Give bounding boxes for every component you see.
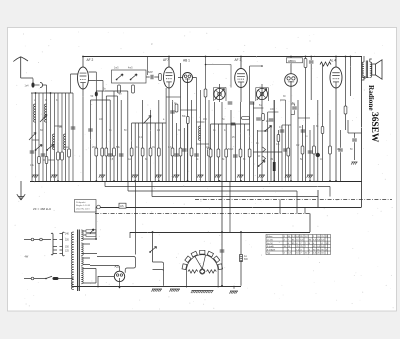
valve data table [266, 235, 331, 255]
node junction [335, 180, 337, 182]
svg-text:ZF = 468 kHz: ZF = 468 kHz [33, 207, 52, 211]
connector pin [40, 238, 43, 241]
wire [348, 132, 362, 134]
capacitor [308, 151, 313, 153]
node junction [310, 56, 312, 58]
terminal circle [97, 205, 101, 209]
node junction [113, 180, 115, 182]
wire [297, 100, 299, 181]
wire [221, 102, 223, 181]
wire tap [83, 244, 97, 254]
node junction [219, 180, 221, 182]
ground [151, 289, 162, 292]
wire [234, 124, 236, 181]
wire [147, 56, 149, 75]
wire [196, 78, 198, 182]
wire [168, 88, 170, 181]
wire tap [83, 258, 90, 265]
resistor [57, 152, 60, 160]
svg-text:36SEW: 36SEW [369, 112, 379, 143]
node junction [152, 231, 154, 233]
wire [135, 195, 137, 255]
capacitor antenna series [31, 82, 34, 87]
resistor padder [132, 85, 135, 93]
wire [268, 111, 279, 113]
wire [82, 56, 84, 67]
ground [351, 162, 357, 165]
svg-text:4m5: 4m5 [128, 68, 133, 70]
wire [277, 130, 279, 181]
node junction [134, 180, 136, 182]
capacitor [108, 154, 113, 156]
svg-text:2M: 2M [92, 146, 95, 149]
wire coil block top [31, 92, 73, 94]
wire [96, 90, 128, 92]
ground [173, 175, 179, 178]
wire supply line [128, 190, 297, 192]
winding [34, 104, 36, 122]
wire [302, 125, 304, 181]
resistor [242, 117, 250, 120]
ground chassis arrow [17, 194, 25, 200]
node junction [57, 180, 59, 182]
node junction [158, 180, 160, 182]
ground [132, 175, 138, 178]
capacitor trimmer [250, 102, 255, 104]
wire [54, 93, 56, 181]
node junction [240, 56, 242, 58]
wire [354, 133, 356, 138]
wire [197, 143, 210, 145]
resistor [113, 148, 116, 156]
ground [191, 291, 214, 294]
wire [146, 123, 148, 181]
wire [131, 123, 133, 181]
wire [187, 124, 189, 182]
connector pin [31, 277, 34, 280]
resistor [277, 135, 280, 142]
wire supply line [105, 186, 330, 188]
wire [91, 99, 111, 101]
AVC arrow [144, 116, 152, 124]
resistor [149, 148, 152, 156]
resistor [179, 148, 182, 156]
capacitor coupling [231, 123, 236, 125]
resistor [141, 148, 144, 156]
wire [187, 83, 189, 182]
wire [42, 93, 44, 181]
vacuum tube ABC1 [285, 74, 298, 87]
wire [43, 159, 55, 161]
wire [178, 77, 197, 79]
resistor [187, 117, 190, 124]
resistor [157, 148, 160, 156]
vacuum tube AB1 duodiode [183, 73, 193, 83]
trimmer arrow [257, 89, 267, 101]
node junction [240, 180, 242, 182]
capacitor trimmer [30, 151, 35, 153]
wire [310, 56, 312, 60]
wire anode lead [89, 72, 97, 91]
wire [151, 181, 153, 197]
resistor [329, 146, 332, 154]
ground [197, 175, 203, 178]
value labels [34, 100, 353, 161]
resistor dark [273, 162, 276, 171]
wire [183, 128, 185, 181]
node junction [35, 92, 37, 94]
wire [329, 187, 331, 197]
svg-text:Prüfpunkt: Prüfpunkt [76, 201, 86, 204]
node junction [290, 56, 292, 58]
resistor [45, 157, 48, 164]
wire [304, 207, 306, 214]
capacitor electrolytic [316, 153, 320, 157]
wire [61, 93, 63, 181]
wire [256, 88, 268, 102]
wire heavy [273, 100, 275, 181]
switch tone [266, 126, 272, 131]
node junction [309, 180, 311, 182]
wire [101, 91, 103, 181]
winding [362, 62, 364, 77]
wire [345, 56, 347, 130]
wire [120, 100, 122, 181]
wire [197, 121, 205, 123]
wire [117, 96, 119, 181]
rectifier tube AZ1 [114, 271, 124, 281]
winding [370, 62, 372, 77]
resistor [105, 148, 108, 156]
ground [99, 175, 105, 178]
node junction [82, 56, 84, 58]
wire [95, 207, 97, 239]
ground [215, 175, 221, 178]
wire [279, 200, 281, 214]
resistor [262, 114, 265, 121]
loudspeaker field coil dome [182, 250, 223, 287]
svg-text:Ug (V): Ug (V) [267, 243, 273, 245]
wire [261, 102, 263, 181]
node junction [273, 180, 275, 182]
trimmer arrow [40, 115, 47, 123]
capacitor [119, 154, 124, 156]
resistor [239, 149, 242, 157]
wire [134, 123, 136, 181]
wire [214, 88, 227, 102]
wire [59, 278, 74, 280]
node junction [45, 278, 47, 280]
wire [158, 100, 160, 181]
wire [150, 110, 152, 181]
wire [90, 100, 92, 181]
resistor [190, 148, 193, 156]
fuse [53, 277, 59, 280]
wire [233, 286, 235, 289]
wire [98, 276, 114, 287]
resistor [248, 149, 251, 157]
wire top HT bus [83, 56, 362, 58]
svg-text:AB 1: AB 1 [183, 59, 190, 63]
node junction [345, 56, 347, 58]
capacitor [301, 130, 306, 132]
node junction [119, 287, 121, 289]
wire [55, 125, 63, 127]
wire [280, 99, 286, 101]
wire [252, 102, 254, 181]
node junction [221, 231, 223, 233]
resistor [225, 149, 228, 157]
wire [176, 123, 178, 181]
wire [240, 88, 242, 103]
resistor osc coil [204, 89, 207, 97]
winding [71, 232, 73, 290]
svg-text:AF 2: AF 2 [87, 58, 94, 62]
IF transformer T2 [256, 88, 267, 99]
antenna [13, 57, 28, 78]
svg-text:BAP: BAP [148, 71, 153, 74]
svg-text:2M: 2M [157, 130, 160, 132]
resistor [313, 146, 316, 154]
resistor padder [118, 85, 121, 93]
contact arrows [263, 147, 266, 161]
wire tap heater [83, 269, 96, 284]
ground [32, 175, 38, 178]
wire [35, 93, 37, 181]
svg-text:ohne Ra nicht: ohne Ra nicht [76, 207, 90, 210]
wire tap [83, 231, 97, 239]
wire [180, 63, 182, 181]
wire B+ line [130, 232, 310, 234]
resistor [68, 149, 71, 157]
wire supply line [152, 196, 318, 198]
oscillator switch box [112, 70, 147, 83]
chassis dash-dot line [95, 213, 310, 215]
wire [90, 266, 120, 272]
resistor [301, 146, 304, 154]
wire [253, 151, 282, 153]
wire [340, 152, 342, 181]
resistor zigzag [320, 62, 331, 66]
switch mains [46, 276, 52, 278]
wire [253, 107, 263, 109]
wire [229, 181, 231, 232]
resistor [344, 106, 347, 114]
wire [191, 100, 193, 181]
wire [113, 91, 115, 181]
wire [127, 181, 129, 191]
resistor mains dropper [240, 255, 243, 262]
wire [127, 91, 129, 181]
node junction [50, 92, 52, 94]
wire [214, 102, 216, 181]
node junction [95, 238, 97, 240]
wire antenna lead [21, 78, 33, 85]
wire grid lead [71, 74, 78, 93]
resistor [38, 157, 41, 164]
wire [38, 93, 40, 181]
potentiometer hum [90, 229, 94, 234]
capacitor [338, 149, 343, 151]
capacitor [88, 129, 93, 131]
wire [305, 68, 307, 182]
winding [45, 104, 47, 122]
wire mains lead [24, 239, 51, 241]
wire mains lead [24, 278, 46, 280]
node junction [335, 56, 337, 58]
svg-text:1M: 1M [270, 159, 273, 161]
wire [138, 123, 140, 181]
svg-text:Röhre: Röhre [267, 235, 274, 238]
svg-text:S (mA/V): S (mA/V) [267, 248, 276, 251]
wire [362, 76, 365, 80]
ground [285, 175, 291, 178]
vacuum tube AF7 [164, 67, 175, 88]
svg-text:AF7: AF7 [163, 58, 169, 62]
wire [132, 122, 167, 124]
wire [109, 100, 111, 181]
connector pin [31, 238, 34, 241]
svg-text:AF 3: AF 3 [235, 58, 242, 62]
wire [72, 93, 74, 181]
svg-text:AL 4: AL 4 [330, 59, 337, 63]
wire [347, 120, 349, 133]
wire [310, 64, 312, 100]
wire [95, 91, 97, 181]
scan speckle dots [15, 32, 394, 310]
svg-text:4w: 4w [244, 256, 247, 258]
switch osc S2a [117, 74, 123, 79]
svg-text:1M: 1M [152, 146, 155, 149]
wire [364, 56, 372, 62]
mains double switch [153, 262, 164, 272]
capacitor [71, 127, 76, 129]
wire [154, 123, 156, 181]
resistor [130, 148, 133, 156]
wire [270, 125, 272, 181]
wire [317, 100, 319, 181]
svg-text:HS: HS [120, 204, 124, 208]
wire [31, 93, 33, 181]
resistor [61, 152, 64, 160]
wire [206, 64, 232, 66]
wire [350, 56, 352, 96]
wire [152, 232, 154, 262]
wire [230, 65, 232, 88]
capacitor 50u [233, 155, 238, 157]
capacitor [220, 250, 225, 252]
wire [221, 181, 223, 232]
resistor [101, 148, 104, 156]
wire [244, 124, 246, 181]
node junction [95, 180, 97, 182]
wire [135, 181, 137, 195]
resistor [217, 149, 220, 157]
loudspeaker [372, 60, 382, 79]
capacitor [194, 154, 199, 156]
node junction [290, 180, 292, 182]
winding [81, 257, 83, 265]
resistor [304, 59, 307, 68]
wire [250, 65, 262, 67]
wire [43, 85, 47, 93]
wire [168, 56, 170, 67]
resistor [175, 104, 178, 112]
wire [166, 96, 180, 98]
wire [285, 100, 287, 181]
resistor [209, 149, 212, 157]
capacitor [40, 83, 43, 88]
voltage selector bracket 2 [63, 232, 65, 256]
wire [322, 65, 324, 182]
winding [81, 267, 83, 284]
wire [240, 262, 242, 286]
resistor [95, 148, 98, 156]
svg-text:4W: 4W [25, 256, 29, 259]
wire [257, 130, 259, 181]
IF transformer T1 [214, 88, 225, 99]
test note box [75, 200, 97, 213]
wire [68, 93, 70, 181]
capacitor feedthrough [95, 92, 98, 97]
switch osc S2b [131, 74, 137, 79]
wire [287, 125, 289, 181]
wire [296, 191, 298, 214]
ground [259, 175, 265, 178]
wire [240, 102, 242, 181]
capacitor [170, 111, 175, 113]
wire [335, 88, 337, 181]
ground [307, 175, 313, 178]
ground [169, 289, 180, 292]
wire bottom bus [72, 286, 241, 288]
wire [106, 95, 117, 97]
resistor [171, 148, 174, 156]
wire [305, 56, 307, 59]
wire [258, 130, 268, 132]
wire [221, 232, 223, 286]
wire [317, 190, 319, 207]
capacitor [269, 119, 274, 121]
label box ABC1 [287, 58, 303, 63]
terminal boxes [86, 230, 96, 233]
svg-text:M: M [45, 100, 47, 102]
wire [290, 86, 292, 181]
svg-text:AZ1: AZ1 [115, 264, 121, 268]
wire [309, 214, 311, 233]
chassis dash-dot line [195, 199, 392, 201]
wire [261, 84, 263, 102]
node junction [205, 64, 207, 66]
switch pilot [151, 247, 157, 252]
wire [129, 232, 131, 238]
wire [230, 110, 232, 181]
svg-text:Regler 1-10 W: Regler 1-10 W [76, 204, 91, 207]
node junction [168, 56, 170, 58]
node junction [240, 231, 242, 233]
wire [35, 84, 40, 86]
wire [50, 93, 52, 181]
capacitor [182, 149, 187, 151]
node junction [350, 56, 352, 58]
wire [335, 56, 337, 67]
wire [240, 56, 242, 69]
node junction [329, 180, 331, 182]
ground [51, 175, 57, 178]
wire [65, 93, 67, 181]
switch wave-change S1b [48, 145, 54, 150]
wire [146, 76, 159, 78]
